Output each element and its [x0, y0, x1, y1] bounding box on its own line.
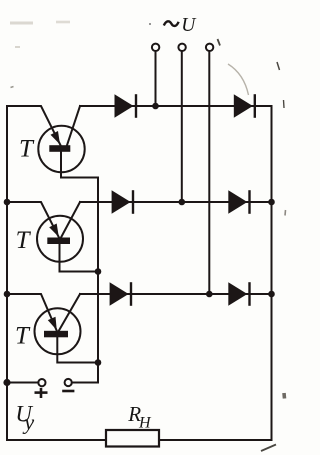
svg-text:y: y — [22, 409, 34, 434]
svg-text:T: T — [15, 323, 31, 350]
svg-text:H: H — [138, 414, 152, 431]
svg-text:T: T — [19, 136, 35, 163]
svg-text:U: U — [181, 15, 197, 36]
svg-text:T: T — [16, 227, 32, 254]
